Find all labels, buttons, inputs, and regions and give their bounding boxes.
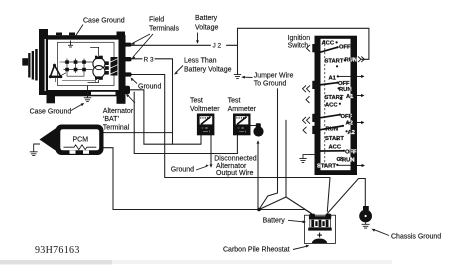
svg-text:Carbon Pile Rheostat: Carbon Pile Rheostat xyxy=(223,247,290,254)
svg-text:Output Wire: Output Wire xyxy=(216,170,253,177)
svg-text:Battery: Battery xyxy=(263,217,286,224)
svg-text:ACC: ACC xyxy=(329,144,342,150)
svg-text:OFF: OFF xyxy=(339,45,351,51)
svg-text:Ignition: Ignition xyxy=(288,35,311,42)
svg-text:Alternator: Alternator xyxy=(216,163,247,170)
svg-text:Less Than: Less Than xyxy=(184,58,217,65)
svg-text:START: START xyxy=(325,136,344,142)
svg-text:Voltmeter: Voltmeter xyxy=(190,106,220,113)
svg-text:Test: Test xyxy=(228,98,241,105)
svg-text:Disconnected: Disconnected xyxy=(214,156,257,163)
svg-text:J 2: J 2 xyxy=(213,42,222,49)
svg-text:93H76163: 93H76163 xyxy=(35,245,80,256)
svg-text:Terminals: Terminals xyxy=(149,26,179,33)
svg-text:Case Ground: Case Ground xyxy=(30,109,72,116)
svg-text:Ammeter: Ammeter xyxy=(228,106,257,113)
svg-text:Field: Field xyxy=(149,17,164,24)
svg-text:‘BAT’: ‘BAT’ xyxy=(103,116,120,123)
svg-text:A1: A1 xyxy=(329,75,337,81)
svg-text:B1: B1 xyxy=(313,83,319,88)
svg-text:START: START xyxy=(325,59,344,65)
svg-text:Ground: Ground xyxy=(138,84,161,91)
svg-text:Alternator: Alternator xyxy=(103,108,134,115)
svg-text:Switch: Switch xyxy=(288,43,309,50)
svg-text:RUN: RUN xyxy=(339,87,352,93)
svg-text:Test: Test xyxy=(190,98,203,105)
svg-text:Jumper Wire: Jumper Wire xyxy=(254,73,294,80)
svg-text:B1: B1 xyxy=(313,46,319,51)
svg-text:ACC: ACC xyxy=(325,102,338,108)
svg-text:Ground: Ground xyxy=(171,166,194,173)
svg-text:To Ground: To Ground xyxy=(254,81,287,88)
svg-text:PCM: PCM xyxy=(73,137,89,144)
svg-text:Terminal: Terminal xyxy=(103,124,130,131)
svg-text:B3: B3 xyxy=(313,128,319,133)
svg-text:Case Ground: Case Ground xyxy=(83,18,125,25)
svg-text:Battery: Battery xyxy=(195,15,218,22)
svg-text:R 3: R 3 xyxy=(144,57,155,64)
svg-text:Voltage: Voltage xyxy=(195,25,218,32)
svg-text:ACC: ACC xyxy=(322,40,335,46)
svg-text:B3: B3 xyxy=(313,116,319,121)
svg-text:Chassis Ground: Chassis Ground xyxy=(391,234,441,241)
svg-text:Battery Voltage: Battery Voltage xyxy=(184,67,232,74)
